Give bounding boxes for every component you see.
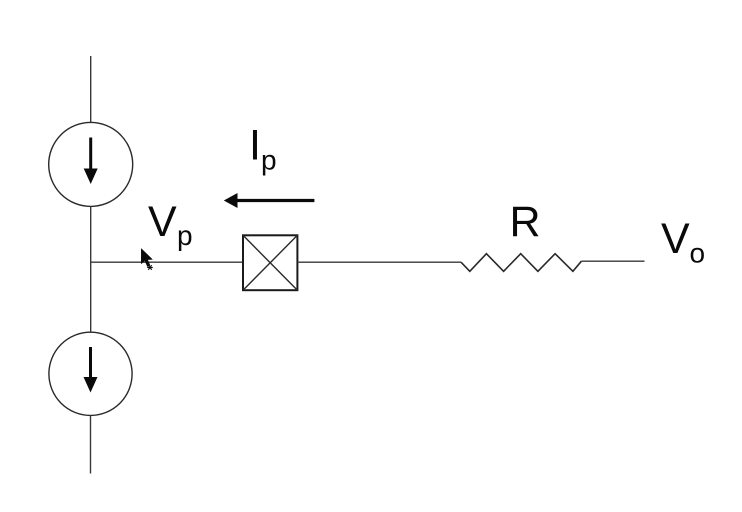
wire: top lead of upper current source <box>90 56 92 122</box>
current source I1 (upper, arrow down) <box>49 122 133 206</box>
svg-text:I: I <box>249 121 261 169</box>
svg-text:p: p <box>261 145 277 176</box>
wire: crossed box to resistor R <box>297 261 461 263</box>
svg-text:V: V <box>661 215 690 263</box>
label Vp <box>148 198 193 251</box>
wire: bottom lead of lower current source <box>90 415 92 473</box>
current source I2 (lower, arrow down) <box>49 332 132 415</box>
label Vo <box>661 215 705 268</box>
svg-text:o: o <box>690 237 706 268</box>
wire: node Vp to crossed box (horizontal) <box>91 261 243 263</box>
svg-text:p: p <box>177 220 193 251</box>
current arrow Ip (pointing left) <box>224 193 315 208</box>
label Ip <box>249 121 277 175</box>
mouse cursor at node Vp <box>141 249 153 270</box>
resistor R (zigzag) <box>461 254 581 272</box>
svg-text:R: R <box>510 198 541 246</box>
wire: between upper source and node (vertical) <box>90 206 92 332</box>
svg-text:V: V <box>148 198 177 246</box>
label R <box>510 198 541 246</box>
crossed box (sampler / mixer symbol) <box>243 235 297 290</box>
wire: resistor to Vo terminal <box>581 260 644 262</box>
